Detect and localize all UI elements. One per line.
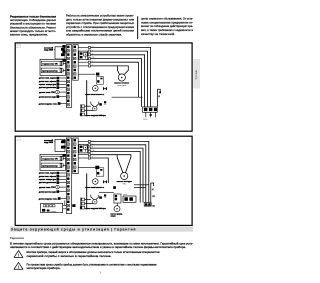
wire bus L3 F1 <box>91 55 145 107</box>
svg-text:центр сервисного обслуживания.: центр сервисного обслуживания. От уста- <box>141 16 193 20</box>
top instruction text column 3 <box>141 16 194 35</box>
wire bus L2 F2 <box>91 145 146 203</box>
svg-text:новки спецавтоматики предприят: новки спецавтоматики предприятие от- <box>141 21 193 24</box>
relay box K1 F2 <box>123 194 136 202</box>
svg-text:В течение гарантийного срока у: В течение гарантийного срока устраняются… <box>10 243 193 246</box>
svg-text:датчик темп. ГВС: датчик темп. ГВС <box>39 187 56 189</box>
svg-text:насос отопительного к.: насос отопительного к. <box>85 94 104 96</box>
loading pump circle F2 <box>93 200 97 204</box>
flow sensor row F2 <box>39 190 66 193</box>
sensor box left F1 <box>97 77 104 85</box>
svg-text:или аварийными отключениями це: или аварийными отключениями цепей питани… <box>66 29 135 33</box>
mains terminal block F2 <box>144 203 151 207</box>
black terminal squares column F2 <box>62 140 65 157</box>
crossing wire b F2 <box>134 187 146 189</box>
svg-text:датчик наружн. темп.: датчик наружн. темп. <box>39 103 58 105</box>
svg-text:программатор: программатор <box>42 71 58 73</box>
svg-text:может проводить только аттесто: может проводить только аттесто- <box>10 30 56 33</box>
wiring diagram frame 2 <box>15 136 192 225</box>
vertical rule between text columns <box>137 16 139 39</box>
terminal strip X2 F1 <box>73 45 78 80</box>
mains connector plug F2 <box>54 139 65 151</box>
sensor row огранич. температуры F1 <box>39 83 66 86</box>
programmer module F1 <box>41 68 66 73</box>
svg-text:Гарантия: Гарантия <box>10 236 24 240</box>
svg-text:контура: контура <box>117 85 126 87</box>
wire bus L2 F1 <box>91 51 148 107</box>
black terminal squares column F1 <box>62 45 65 62</box>
svg-text:эксплуатации прибора.: эксплуатации прибора. <box>27 267 61 270</box>
svg-text:программатор: программатор <box>42 166 58 168</box>
sensor box left F2 <box>96 168 104 176</box>
terminal strip X1 F2 <box>66 138 71 214</box>
svg-text:шнур 230В: шнур 230В <box>44 142 54 144</box>
svg-text:качеству на техничной.: качеству на техничной. <box>141 32 175 36</box>
small black component on lower wire F1 <box>78 73 99 76</box>
svg-text:насос загрузки бойлера: насос загрузки бойлера <box>85 207 106 210</box>
svg-text:датчик давления: датчик давления <box>39 182 56 184</box>
svg-text:дить только аттестованная фирм: дить только аттестованная фирма-специали… <box>66 17 135 21</box>
svg-text:612 3: 612 3 <box>17 47 21 49</box>
svg-text:датчик темп. подачи: датчик темп. подачи <box>39 78 57 80</box>
warranty paragraph <box>10 243 193 250</box>
pump feeder branch F1 <box>117 66 119 74</box>
horizontal wire upper F2 <box>99 191 114 193</box>
sensor row датчик темп. подачи F2 <box>39 172 66 175</box>
svg-text:огранич. температуры: огранич. температуры <box>39 84 56 86</box>
figure number label F2 <box>17 137 21 141</box>
warning 1 text <box>27 251 160 258</box>
wiring diagram frame 1 <box>15 43 192 131</box>
svg-text:огранич. температуры: огранич. температуры <box>39 179 56 181</box>
svg-text:указаний и инструкции по техни: указаний и инструкции по технике <box>10 22 57 26</box>
funnel wires F1 <box>91 102 99 108</box>
bus contact Ls F2 <box>78 140 93 143</box>
svg-text:шнур 230В: шнур 230В <box>44 50 54 52</box>
svg-text:сервисной службы с записью в г: сервисной службы с записью в гарантийном… <box>27 255 112 258</box>
regulator enclosure box F1 <box>40 59 66 75</box>
boiler circuit pump circle F1 <box>93 86 99 92</box>
heating pump P1 F1 <box>114 74 130 87</box>
programmer module F2 <box>41 163 66 168</box>
sensor row датчик темп. подачи F1 <box>39 77 66 80</box>
wire to pump with feeders F1 <box>91 66 129 74</box>
thermostat module F2 <box>41 156 66 161</box>
svg-text:Работы на электрических устрой: Работы на электрических устройствах може… <box>66 14 134 18</box>
wire bus L4 F2 <box>91 151 141 202</box>
outdoor temp sensor row F1 <box>39 102 67 105</box>
relay module F1 <box>79 51 88 60</box>
horizontal wire to mains block F1 <box>112 96 143 98</box>
svg-text:M1: M1 <box>104 104 106 106</box>
sensor row датчик темп. обратки F2 <box>39 175 66 178</box>
svg-text:сервисная служба. При срабатыв: сервисная служба. При срабатывании защит… <box>66 21 135 25</box>
bus contact 9 F2 <box>78 153 93 156</box>
loading pump circle F1 <box>93 106 97 110</box>
svg-text:обратитесь в сервисную службу: обратитесь в сервисную службу заказчика. <box>66 32 122 36</box>
svg-text:насос отопительного к.: насос отопительного к. <box>85 187 104 189</box>
main vertical wire F1 <box>86 80 88 116</box>
svg-text:эксплуатация. Соблюдение данны: эксплуатация. Соблюдение данных <box>10 18 57 22</box>
svg-text:насос загрузки бойлера: насос загрузки бойлера <box>85 114 106 117</box>
crossing wire a F2 <box>134 184 149 186</box>
wire bus L5 F1 <box>91 62 139 97</box>
small marks F1 <box>99 101 106 106</box>
warning triangle 1 <box>14 251 23 258</box>
valve symbol F2 <box>103 180 107 184</box>
bus contact Lr F1 <box>88 50 94 53</box>
regulator enclosure box F2 <box>40 154 66 170</box>
clock timer module F2 <box>41 201 76 213</box>
svg-text:датчик темп. обратки: датчик темп. обратки <box>39 176 57 178</box>
wire bus L4 F1 <box>91 59 142 107</box>
wire bus L6 F2 <box>91 158 109 183</box>
svg-text:термостат tR: термостат tR <box>42 63 58 66</box>
main vertical wire F2 <box>86 173 88 209</box>
terminal strip X2 F2 <box>73 138 78 174</box>
sub connector bar F2 <box>80 198 96 210</box>
svg-text:датчик темп. подачи: датчик темп. подачи <box>39 173 57 175</box>
wire bus L3 F2 <box>91 148 144 202</box>
small marks F2 <box>99 194 106 199</box>
svg-text:Разрешается только безопасная: Разрешается только безопасная <box>10 14 57 18</box>
sensor row датчик давления F1 <box>39 86 66 89</box>
svg-text:Русский: Русский <box>195 70 198 80</box>
svg-text:термостат tR: термостат tR <box>42 158 58 161</box>
svg-text:датчик темп. обратки: датчик темп. обратки <box>39 81 57 83</box>
bus contact PE F2 <box>88 150 94 153</box>
svg-text:датчик протока воды: датчик протока воды <box>39 191 56 193</box>
svg-text:ляции: ляции <box>111 216 116 218</box>
wire bus L1 F1 <box>91 47 151 107</box>
circulation pump P3 F2 <box>111 206 123 218</box>
svg-text:датчик давления: датчик давления <box>39 87 56 89</box>
svg-text:По прошествии срока службы при: По прошествии срока службы прибор должен… <box>27 263 158 266</box>
grounding bracket F2 <box>151 183 155 207</box>
mains connector plug F1 <box>54 47 65 59</box>
flow sensor row F1 <box>39 95 66 98</box>
svg-text:Монтаж прибора, первый запуск: Монтаж прибора, первый запуск и обслужив… <box>27 251 160 254</box>
grounding bracket F1 <box>157 89 161 107</box>
svg-text:устройств с отключившимися пре: устройств с отключившимися предохранител… <box>66 25 135 29</box>
language side tab <box>193 59 200 89</box>
svg-text:Защита окружающей среды и утил: Защита окружающей среды и утилизация | Г… <box>11 228 136 232</box>
svg-text:безопасности обязательно. Ремо: безопасности обязательно. Ремонт <box>10 25 57 29</box>
wire to pump with feeders F2 <box>91 155 131 173</box>
figure number label F1 <box>17 45 21 49</box>
relay module F2 <box>79 144 88 153</box>
svg-text:612 3: 612 3 <box>17 139 21 141</box>
svg-text:навливается в соответствии с д: навливается в соответствии с действующим… <box>10 246 186 249</box>
bus contact Ls F1 <box>78 46 93 49</box>
circulation module F2 <box>113 186 121 205</box>
bus contact 9 F1 <box>78 61 93 64</box>
hot water sensor with circle symbol F2 <box>39 185 66 189</box>
terminal strip X1 F1 <box>66 45 71 108</box>
svg-text:таймер: таймер <box>51 210 57 213</box>
section header bar <box>10 226 193 231</box>
svg-text:вечает за соблюдение действующ: вечает за соблюдение действующих пра- <box>141 24 193 28</box>
pump feeder branch F2 <box>117 155 123 173</box>
bus contact 4 F1 <box>78 64 93 67</box>
bus contact 4 F2 <box>78 157 93 160</box>
sensor row датчик давления F2 <box>39 181 66 184</box>
outdoor temp sensor row F2 <box>39 197 67 200</box>
mains cord label F2 <box>44 139 54 144</box>
boiler circuit pump circle F2 <box>93 179 99 185</box>
funnel wires F2 <box>91 195 99 201</box>
svg-text:ванное спец. предприятие.: ванное спец. предприятие. <box>10 34 48 37</box>
svg-text:M1: M1 <box>104 197 106 199</box>
svg-text:датчик темп. ГВС: датчик темп. ГВС <box>39 92 56 94</box>
hot water circuit pump P1 F2 <box>117 172 133 185</box>
mains terminal block 230V F1 <box>143 107 158 121</box>
sensor row датчик темп. обратки F1 <box>39 80 66 83</box>
bus contact N F2 <box>88 147 94 150</box>
top instruction text column 2 <box>66 14 135 37</box>
top instruction text column 1 <box>10 14 57 36</box>
bus contact Lr F2 <box>88 143 94 146</box>
svg-text:датчик протока воды: датчик протока воды <box>39 96 56 98</box>
bus contact PE F1 <box>88 57 94 60</box>
sensor row огранич. температуры F2 <box>39 178 66 181</box>
bus contact N F1 <box>88 53 94 56</box>
small black component on lower wire F2 <box>78 166 99 169</box>
warning triangle 2 <box>14 262 23 269</box>
thermostat module F1 <box>41 61 66 66</box>
svg-text:реле: реле <box>123 194 127 196</box>
valve symbol F1 <box>103 87 107 91</box>
wire bus L1 F2 <box>91 142 149 203</box>
sub connector bar F1 <box>80 104 96 116</box>
mains cord label F1 <box>44 46 54 51</box>
svg-text:датчик наружн. темп.: датчик наружн. темп. <box>39 198 58 200</box>
warning 2 text <box>27 263 158 270</box>
hot water sensor with circle symbol F1 <box>39 90 66 94</box>
svg-text:вил, а также требования к наде: вил, а также требования к надежности и <box>141 28 194 32</box>
